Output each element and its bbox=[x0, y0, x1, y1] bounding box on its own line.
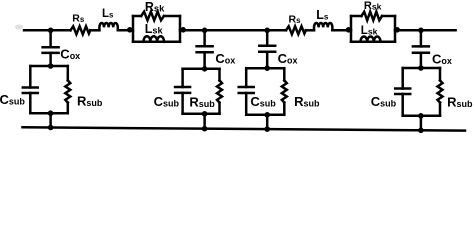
svg-text:Rsk: Rsk bbox=[145, 0, 165, 14]
svg-text:Lsk: Lsk bbox=[361, 25, 378, 37]
svg-text:Rsk: Rsk bbox=[364, 0, 382, 12]
svg-text:Rs: Rs bbox=[289, 13, 302, 25]
svg-text:Ls: Ls bbox=[102, 8, 114, 20]
svg-text:Rs: Rs bbox=[72, 12, 85, 24]
